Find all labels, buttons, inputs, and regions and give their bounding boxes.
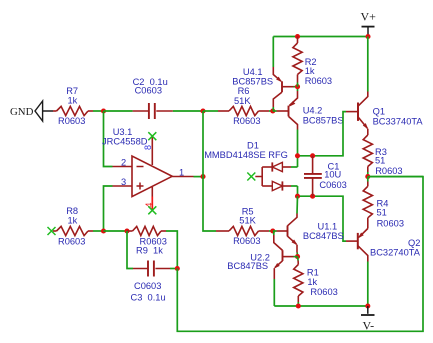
wire C3 to node E	[170, 268, 177, 270]
wire V- rail	[274, 305, 368, 307]
capacitor C2	[133, 77, 173, 119]
resistor R5	[216, 206, 273, 246]
no-connect X D1 center	[247, 173, 255, 181]
diode D1 (bottom half)	[262, 181, 297, 190]
junction top rail C1	[310, 153, 315, 158]
wire node B to R6	[203, 110, 218, 112]
transistor U1.1 BC847BS	[273, 214, 344, 257]
wire node C to node D	[104, 230, 128, 232]
transistor U4.2 BC857BS	[273, 87, 344, 130]
capacitor C1	[304, 156, 347, 196]
ground GND	[10, 101, 53, 121]
svg-text:1k: 1k	[68, 96, 78, 106]
junction output node (R3/R4)	[365, 174, 370, 179]
junction node H (R5/U1.1 base/U2.2 collector)	[270, 228, 275, 233]
svg-text:R9 1k: R9 1k	[136, 246, 163, 256]
svg-text:R0603: R0603	[305, 76, 332, 86]
resistor R3	[363, 135, 402, 177]
svg-text:51K: 51K	[239, 215, 256, 225]
transistor Q2 BC32740TA	[346, 229, 421, 262]
resistor R4	[363, 177, 404, 229]
svg-text:51: 51	[377, 207, 387, 217]
svg-text:BC847BS: BC847BS	[303, 231, 344, 241]
resistor R1	[294, 257, 338, 306]
junction V- node	[365, 303, 370, 308]
svg-text:BC857BS: BC857BS	[303, 116, 344, 126]
svg-text:1: 1	[179, 167, 184, 177]
svg-text:51: 51	[375, 155, 385, 165]
junction lower rail left	[295, 194, 300, 199]
junction node E (C3/R9/feedback)	[175, 266, 180, 271]
svg-text:GND: GND	[10, 106, 34, 118]
wire op-amp output to node B branch	[194, 176, 204, 178]
diode D1 MMBD4148SE (top half)	[204, 140, 297, 171]
transistor U2.2 BC847BS	[227, 231, 297, 279]
svg-text:R8: R8	[66, 206, 78, 216]
wire node B down through output to R5	[203, 111, 216, 231]
svg-text:V+: V+	[361, 10, 377, 24]
svg-text:BC847BS: BC847BS	[227, 261, 268, 271]
wire V+ rail down to U4.1 emitter	[272, 37, 274, 68]
junction node A (R7/C2/pin2)	[101, 108, 106, 113]
svg-text:Q1: Q1	[373, 106, 385, 116]
wire D1 bottom to lower rail	[297, 186, 299, 196]
svg-text:R0603: R0603	[58, 116, 85, 126]
svg-text:R0603: R0603	[233, 116, 260, 126]
wire Q1 collector to V+	[367, 37, 369, 92]
svg-text:JRC4558D: JRC4558D	[102, 136, 148, 146]
resistor R6	[218, 86, 273, 126]
junction node C (R8/pin3/R9 net)	[101, 228, 106, 233]
wire op-amp pin 3 down to node C	[104, 186, 113, 231]
wire R7 to node A	[93, 110, 104, 112]
junction node D (R9/C3 branch)	[124, 228, 129, 233]
transistor Q1 BC33740TA	[346, 92, 423, 136]
svg-text:R7: R7	[66, 86, 78, 96]
junction output node (pin1/vertical)	[200, 174, 205, 179]
junction R1 bottom	[296, 303, 301, 308]
wire feedback loop bottom	[177, 177, 423, 332]
svg-text:10U: 10U	[324, 169, 341, 179]
wire D1 top to bias rail	[297, 156, 299, 167]
svg-text:51K: 51K	[234, 96, 251, 106]
junction node G (R2/U4.1 base/U4.2 emitter)	[295, 84, 300, 89]
resistor R8	[53, 206, 93, 247]
wire lower bias rail to Q2 base	[298, 196, 347, 241]
svg-text:BC33740TA: BC33740TA	[373, 117, 424, 127]
wire V+ rail	[273, 36, 368, 38]
svg-text:R0603: R0603	[58, 236, 85, 246]
svg-text:R0603: R0603	[310, 287, 337, 297]
wire R8 to node C	[93, 230, 104, 232]
svg-text:MMBD4148SE RFG: MMBD4148SE RFG	[204, 150, 288, 160]
power V+	[361, 10, 377, 37]
resistor R9	[127, 226, 167, 255]
svg-text:1k: 1k	[68, 216, 78, 226]
wire node A down to op-amp pin 2	[104, 111, 113, 167]
op-amp U3.1 JRC4558D	[102, 127, 194, 211]
junction R2 top	[295, 34, 300, 39]
svg-text:R0603: R0603	[375, 166, 402, 176]
svg-text:U3.1: U3.1	[113, 127, 133, 137]
svg-text:V-: V-	[363, 318, 375, 332]
wire R9 right to node E	[166, 231, 177, 269]
svg-text:C0603: C0603	[135, 86, 162, 96]
capacitor C3	[131, 261, 171, 303]
wire Q2 collector to V- rail	[367, 262, 369, 307]
resistor R2	[293, 37, 332, 87]
junction lower rail C1	[310, 194, 315, 199]
wire node D down to C3	[127, 231, 133, 269]
junction V+ node	[365, 34, 370, 39]
svg-text:8: 8	[143, 145, 153, 150]
wire D1 center tap	[255, 167, 262, 186]
svg-text:R0603: R0603	[233, 236, 260, 246]
wire U1.1 collector to lower rail	[296, 196, 299, 213]
svg-text:3: 3	[121, 177, 126, 187]
junction node F (R6/U4.1 collector/U4.2 base)	[270, 108, 275, 113]
wire U4.2 collector down to top bias rail	[297, 130, 299, 156]
svg-text:BC32740TA: BC32740TA	[370, 247, 421, 257]
svg-text:U4.2: U4.2	[303, 105, 323, 115]
transistor U4.1 BC857BS	[232, 67, 297, 111]
svg-text:C0603: C0603	[319, 180, 346, 190]
junction node B (C2/R6/output branch)	[200, 108, 205, 113]
wire U2.2 emitter to V- rail	[273, 279, 275, 306]
svg-text:1k: 1k	[305, 66, 315, 76]
no-connect X pin 8	[148, 132, 156, 140]
resistor R7	[53, 86, 93, 126]
power V-	[361, 306, 375, 332]
wire top bias rail to Q1 base	[298, 112, 347, 156]
svg-text:R6: R6	[238, 86, 250, 96]
no-connect X pin 4	[148, 206, 156, 214]
svg-text:1k: 1k	[307, 277, 317, 287]
svg-text:C0603: C0603	[134, 281, 161, 291]
wire node A to C2	[104, 110, 133, 112]
svg-text:2: 2	[121, 157, 126, 167]
svg-text:R0603: R0603	[377, 218, 404, 228]
no-connect X R8 left pin	[48, 227, 56, 235]
svg-text:BC857BS: BC857BS	[232, 76, 273, 86]
junction top rail left	[295, 153, 300, 158]
wire output node to feedback	[368, 176, 423, 178]
junction node I (U1.1 emitter/U2.2 base/R1)	[295, 254, 300, 259]
wire C2 to node B	[173, 110, 203, 112]
svg-text:C3 0.1u: C3 0.1u	[131, 292, 166, 302]
